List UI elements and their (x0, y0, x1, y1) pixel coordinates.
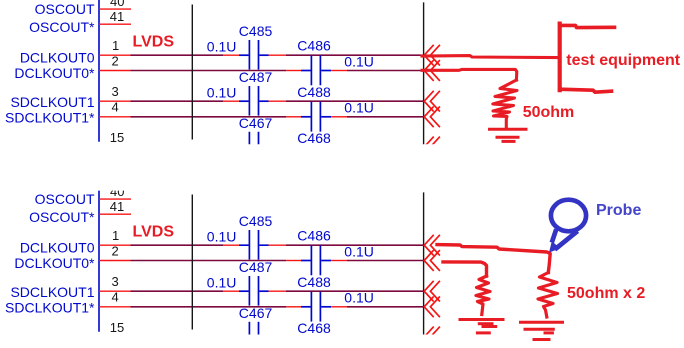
wire net pin5: segment to bus line (286, 336, 424, 338)
wire net pin4: red segment left of cap (286, 116, 301, 118)
off-page connector chevron (net pin2) (424, 60, 440, 81)
wire net pin3: red segment left of cap (223, 100, 239, 102)
svg-text:C485: C485 (239, 213, 273, 229)
svg-text:3: 3 (112, 84, 119, 99)
wire net pin4: red segment right of cap (331, 306, 347, 308)
svg-text:15: 15 (110, 320, 124, 335)
wire net pin3: red segment right of cap (268, 100, 286, 102)
wire net pin2: segment to bus line (347, 260, 424, 262)
svg-text:OSCOUT: OSCOUT (35, 1, 95, 17)
wire net pin5: red pin stub (99, 146, 131, 148)
svg-text:C467: C467 (239, 305, 273, 321)
svg-text:0.1U: 0.1U (344, 243, 374, 259)
svg-text:LVDS: LVDS (133, 224, 175, 241)
wire net pin2: segment to bus line (347, 70, 424, 72)
svg-text:C467: C467 (239, 115, 273, 131)
capacitor C486 (301, 55, 331, 85)
pin 41 stub (99, 213, 131, 215)
capacitor C467 (239, 322, 269, 348)
svg-text:15: 15 (110, 130, 124, 145)
capacitor C485 (239, 40, 269, 70)
wire net pin2: red segment left of cap (286, 70, 301, 72)
svg-text:C487: C487 (239, 259, 273, 275)
wire net pin4: segment to bus line (347, 306, 424, 308)
wire net pin2: red segment left of cap (286, 260, 301, 262)
off-page connector chevron (net pin3) (424, 281, 440, 302)
wire net pin2: segment to C-col2 (131, 70, 287, 72)
pin 41 stub (99, 23, 131, 25)
annotation wire: pin2 net to 50ohm #2 (443, 262, 487, 276)
svg-text:SDCLKOUT1: SDCLKOUT1 (10, 284, 94, 300)
ground (test equipment load) (490, 129, 527, 141)
svg-text:C468: C468 (297, 320, 331, 336)
svg-text:Probe: Probe (596, 202, 641, 219)
boundary line (right) (423, 192, 425, 335)
svg-text:C488: C488 (297, 274, 331, 290)
wire net pin4: segment to C-col2 (131, 306, 287, 308)
wire net pin2: red segment right of cap (331, 260, 347, 262)
svg-text:1: 1 (112, 38, 119, 53)
capacitor C467 (239, 132, 269, 162)
svg-text:C488: C488 (297, 84, 331, 100)
capacitor C487 (239, 86, 269, 116)
capacitor C485 (239, 230, 269, 260)
wire net pin1: red segment right of cap (268, 244, 286, 246)
boundary line (left) (191, 5, 193, 140)
svg-text:OSCOUT: OSCOUT (35, 191, 95, 207)
IC boundary pin-edge line (98, 0, 100, 142)
wire net pin1: segment to C-col1 (131, 54, 224, 56)
resistor 50ohm #1 (under probe) (538, 273, 558, 318)
probe icon (551, 200, 586, 250)
wire net pin2: red pin stub (99, 260, 131, 262)
svg-text:test equipment: test equipment (566, 52, 680, 69)
svg-text:0.1U: 0.1U (207, 85, 237, 101)
svg-text:40: 40 (110, 0, 124, 9)
wire net pin4: red segment right of cap (331, 116, 347, 118)
wire net pin5: red segment right of cap (268, 336, 286, 338)
wire net pin3: red segment right of cap (268, 290, 286, 292)
svg-text:DCLKOUT0: DCLKOUT0 (20, 49, 95, 65)
svg-text:SDCLKOUT1*: SDCLKOUT1* (5, 299, 95, 315)
off-page connector chevron (net pin5) (424, 137, 440, 158)
svg-text:DCLKOUT0: DCLKOUT0 (20, 239, 95, 255)
wire net pin3: red pin stub (99, 100, 131, 102)
svg-text:0.1U: 0.1U (344, 290, 374, 306)
svg-text:50ohm: 50ohm (523, 104, 575, 121)
svg-text:C487: C487 (239, 69, 273, 85)
ground (probe resistor) (521, 322, 563, 339)
ground (50ohm #2) (460, 320, 503, 333)
svg-text:C485: C485 (239, 23, 273, 39)
wire net pin1: segment to bus line (286, 244, 424, 246)
pin 40 stub (99, 198, 131, 200)
wire net pin3: segment to C-col1 (131, 290, 224, 292)
capacitor C487 (239, 276, 269, 306)
capacitor C488 (301, 292, 331, 322)
svg-text:0.1U: 0.1U (207, 229, 237, 245)
off-page connector chevron (net pin5) (424, 327, 440, 348)
wire net pin5: segment to C-col1 (131, 146, 224, 148)
IC boundary pin-edge line (98, 188, 100, 332)
resistor 50ohm #2 (476, 276, 490, 315)
off-page connector chevron (net pin4) (424, 106, 440, 127)
pin 40 stub (99, 8, 131, 10)
svg-text:0.1U: 0.1U (344, 53, 374, 69)
svg-text:0.1U: 0.1U (207, 39, 237, 55)
annotation bracket: test equipment box (560, 25, 615, 27)
svg-text:LVDS: LVDS (133, 34, 175, 51)
boundary line (left) (191, 195, 193, 330)
wire net pin4: segment to bus line (347, 116, 424, 118)
svg-text:0.1U: 0.1U (344, 100, 374, 116)
boundary line (right) (423, 2, 425, 145)
capacitor C486 (301, 245, 331, 275)
wire net pin5: red pin stub (99, 336, 131, 338)
svg-text:SDCLKOUT1*: SDCLKOUT1* (5, 109, 95, 125)
resistor 50ohm (hand-drawn) (493, 80, 517, 127)
wire net pin5: red segment left of cap (223, 146, 239, 148)
wire net pin1: red segment left of cap (223, 244, 239, 246)
capacitor C488 (301, 102, 331, 132)
svg-text:DCLKOUT0*: DCLKOUT0* (14, 65, 95, 81)
wire net pin5: red segment left of cap (223, 336, 239, 338)
off-page connector chevron (net pin1) (424, 45, 440, 66)
wire net pin5: segment to bus line (286, 146, 424, 148)
annotation wire: pin1 net to test equipment (422, 56, 558, 58)
svg-text:C486: C486 (297, 228, 331, 244)
svg-text:41: 41 (110, 9, 124, 24)
annotation wire: pin2 net to 50ohm load (422, 69, 517, 80)
svg-text:1: 1 (112, 228, 119, 243)
wire net pin3: segment to bus line (286, 290, 424, 292)
wire net pin4: segment to C-col2 (131, 116, 287, 118)
wire net pin2: red segment right of cap (331, 70, 347, 72)
off-page connector chevron (net pin4) (424, 296, 440, 317)
svg-text:SDCLKOUT1: SDCLKOUT1 (10, 94, 94, 110)
wire net pin3: red pin stub (99, 290, 131, 292)
svg-text:41: 41 (110, 199, 124, 214)
annotation wire: pin1 net to probe point (437, 245, 550, 273)
wire net pin1: red segment left of cap (223, 54, 239, 56)
svg-text:C468: C468 (297, 130, 331, 146)
wire net pin5: red segment right of cap (268, 146, 286, 148)
wire net pin2: segment to C-col2 (131, 260, 287, 262)
wire net pin4: red segment left of cap (286, 306, 301, 308)
wire net pin5: segment to C-col1 (131, 336, 224, 338)
wire net pin1: segment to bus line (286, 54, 424, 56)
wire net pin4: red pin stub (99, 116, 131, 118)
wire net pin1: segment to C-col1 (131, 244, 224, 246)
svg-text:3: 3 (112, 274, 119, 289)
wire net pin1: red pin stub (99, 244, 131, 246)
wire net pin3: segment to bus line (286, 100, 424, 102)
svg-text:OSCOUT*: OSCOUT* (29, 209, 95, 225)
svg-text:0.1U: 0.1U (207, 275, 237, 291)
wire net pin1: red segment right of cap (268, 54, 286, 56)
off-page connector chevron (net pin1) (424, 235, 440, 256)
svg-text:C486: C486 (297, 38, 331, 54)
svg-text:50ohm x 2: 50ohm x 2 (567, 285, 645, 302)
wire net pin2: red pin stub (99, 70, 131, 72)
svg-text:DCLKOUT0*: DCLKOUT0* (14, 255, 95, 271)
svg-text:OSCOUT*: OSCOUT* (29, 19, 95, 35)
wire net pin4: red pin stub (99, 306, 131, 308)
wire net pin3: segment to C-col1 (131, 100, 224, 102)
off-page connector chevron (net pin2) (424, 250, 440, 271)
wire net pin1: red pin stub (99, 54, 131, 56)
wire net pin3: red segment left of cap (223, 290, 239, 292)
off-page connector chevron (net pin3) (424, 91, 440, 112)
